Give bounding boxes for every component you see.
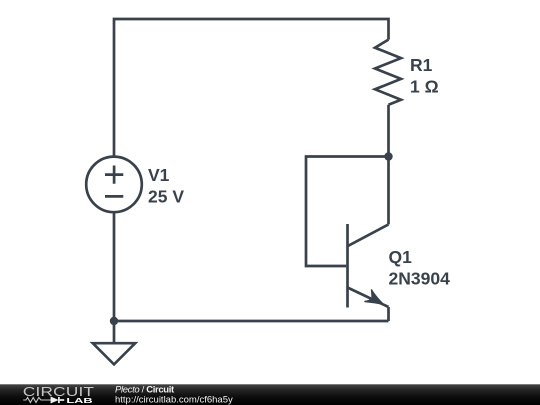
svg-text:1 Ω: 1 Ω bbox=[410, 76, 439, 96]
svg-text:V1: V1 bbox=[148, 165, 170, 185]
svg-text:2N3904: 2N3904 bbox=[389, 268, 451, 288]
wire V1.- down to ground node bbox=[113, 212, 116, 321]
svg-text:25 V: 25 V bbox=[148, 186, 184, 206]
resistor R1 bbox=[375, 40, 401, 105]
wire R1.b down to collector node bbox=[387, 105, 390, 157]
logo diode triangle bbox=[51, 397, 59, 404]
svg-text:LAB: LAB bbox=[66, 397, 93, 405]
logo resistor-diode glyph bbox=[23, 397, 64, 403]
svg-text:http://circuitlab.com/cf6ha5y: http://circuitlab.com/cf6ha5y bbox=[115, 395, 233, 405]
footer bar bbox=[0, 384, 540, 405]
wire node down to Q1 collector bbox=[387, 157, 390, 225]
svg-text:Q1: Q1 bbox=[389, 247, 413, 267]
svg-text:R1: R1 bbox=[410, 55, 433, 75]
wire bottom rail: ground node to Q1 emitter bbox=[114, 320, 389, 323]
node: ground junction dot bbox=[110, 317, 118, 325]
node: collector feedback junction dot bbox=[384, 152, 392, 160]
ground bbox=[93, 321, 135, 364]
wire feedback loop: node to Q1 base bbox=[306, 157, 389, 267]
wire top rail: V1.+ up, across, down to R1.a bbox=[114, 19, 389, 157]
voltage source V1 bbox=[86, 157, 142, 213]
transistor Q1 bbox=[348, 224, 389, 321]
